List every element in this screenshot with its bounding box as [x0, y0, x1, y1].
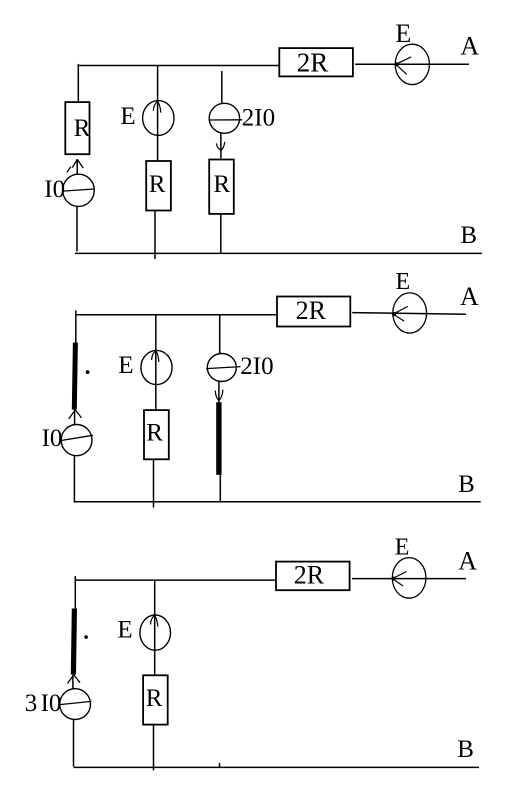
- svg-text:R: R: [146, 420, 163, 447]
- svg-text:E: E: [117, 617, 132, 644]
- svg-text:E: E: [395, 19, 411, 48]
- svg-text:2R: 2R: [294, 561, 325, 590]
- svg-text:2R: 2R: [297, 47, 329, 77]
- svg-text:B: B: [458, 471, 475, 498]
- svg-text:A: A: [460, 31, 479, 60]
- svg-text:A: A: [458, 547, 477, 576]
- svg-text:E: E: [395, 535, 410, 561]
- svg-text:I0: I0: [42, 425, 63, 452]
- svg-text:I0: I0: [41, 690, 62, 717]
- svg-text:E: E: [120, 103, 135, 130]
- svg-text:E: E: [396, 269, 411, 295]
- svg-text:R: R: [74, 115, 91, 142]
- svg-text:R: R: [149, 171, 166, 198]
- svg-text:A: A: [460, 282, 479, 311]
- svg-text:2I0: 2I0: [240, 353, 273, 380]
- svg-text:B: B: [457, 736, 474, 763]
- svg-text:2I0: 2I0: [242, 104, 275, 131]
- svg-text:2R: 2R: [296, 296, 327, 325]
- svg-text:I0: I0: [44, 176, 65, 203]
- svg-text:B: B: [460, 222, 477, 249]
- svg-text:R: R: [146, 685, 163, 712]
- svg-text:3: 3: [25, 690, 38, 717]
- svg-text:R: R: [213, 171, 230, 198]
- svg-text:E: E: [118, 352, 133, 379]
